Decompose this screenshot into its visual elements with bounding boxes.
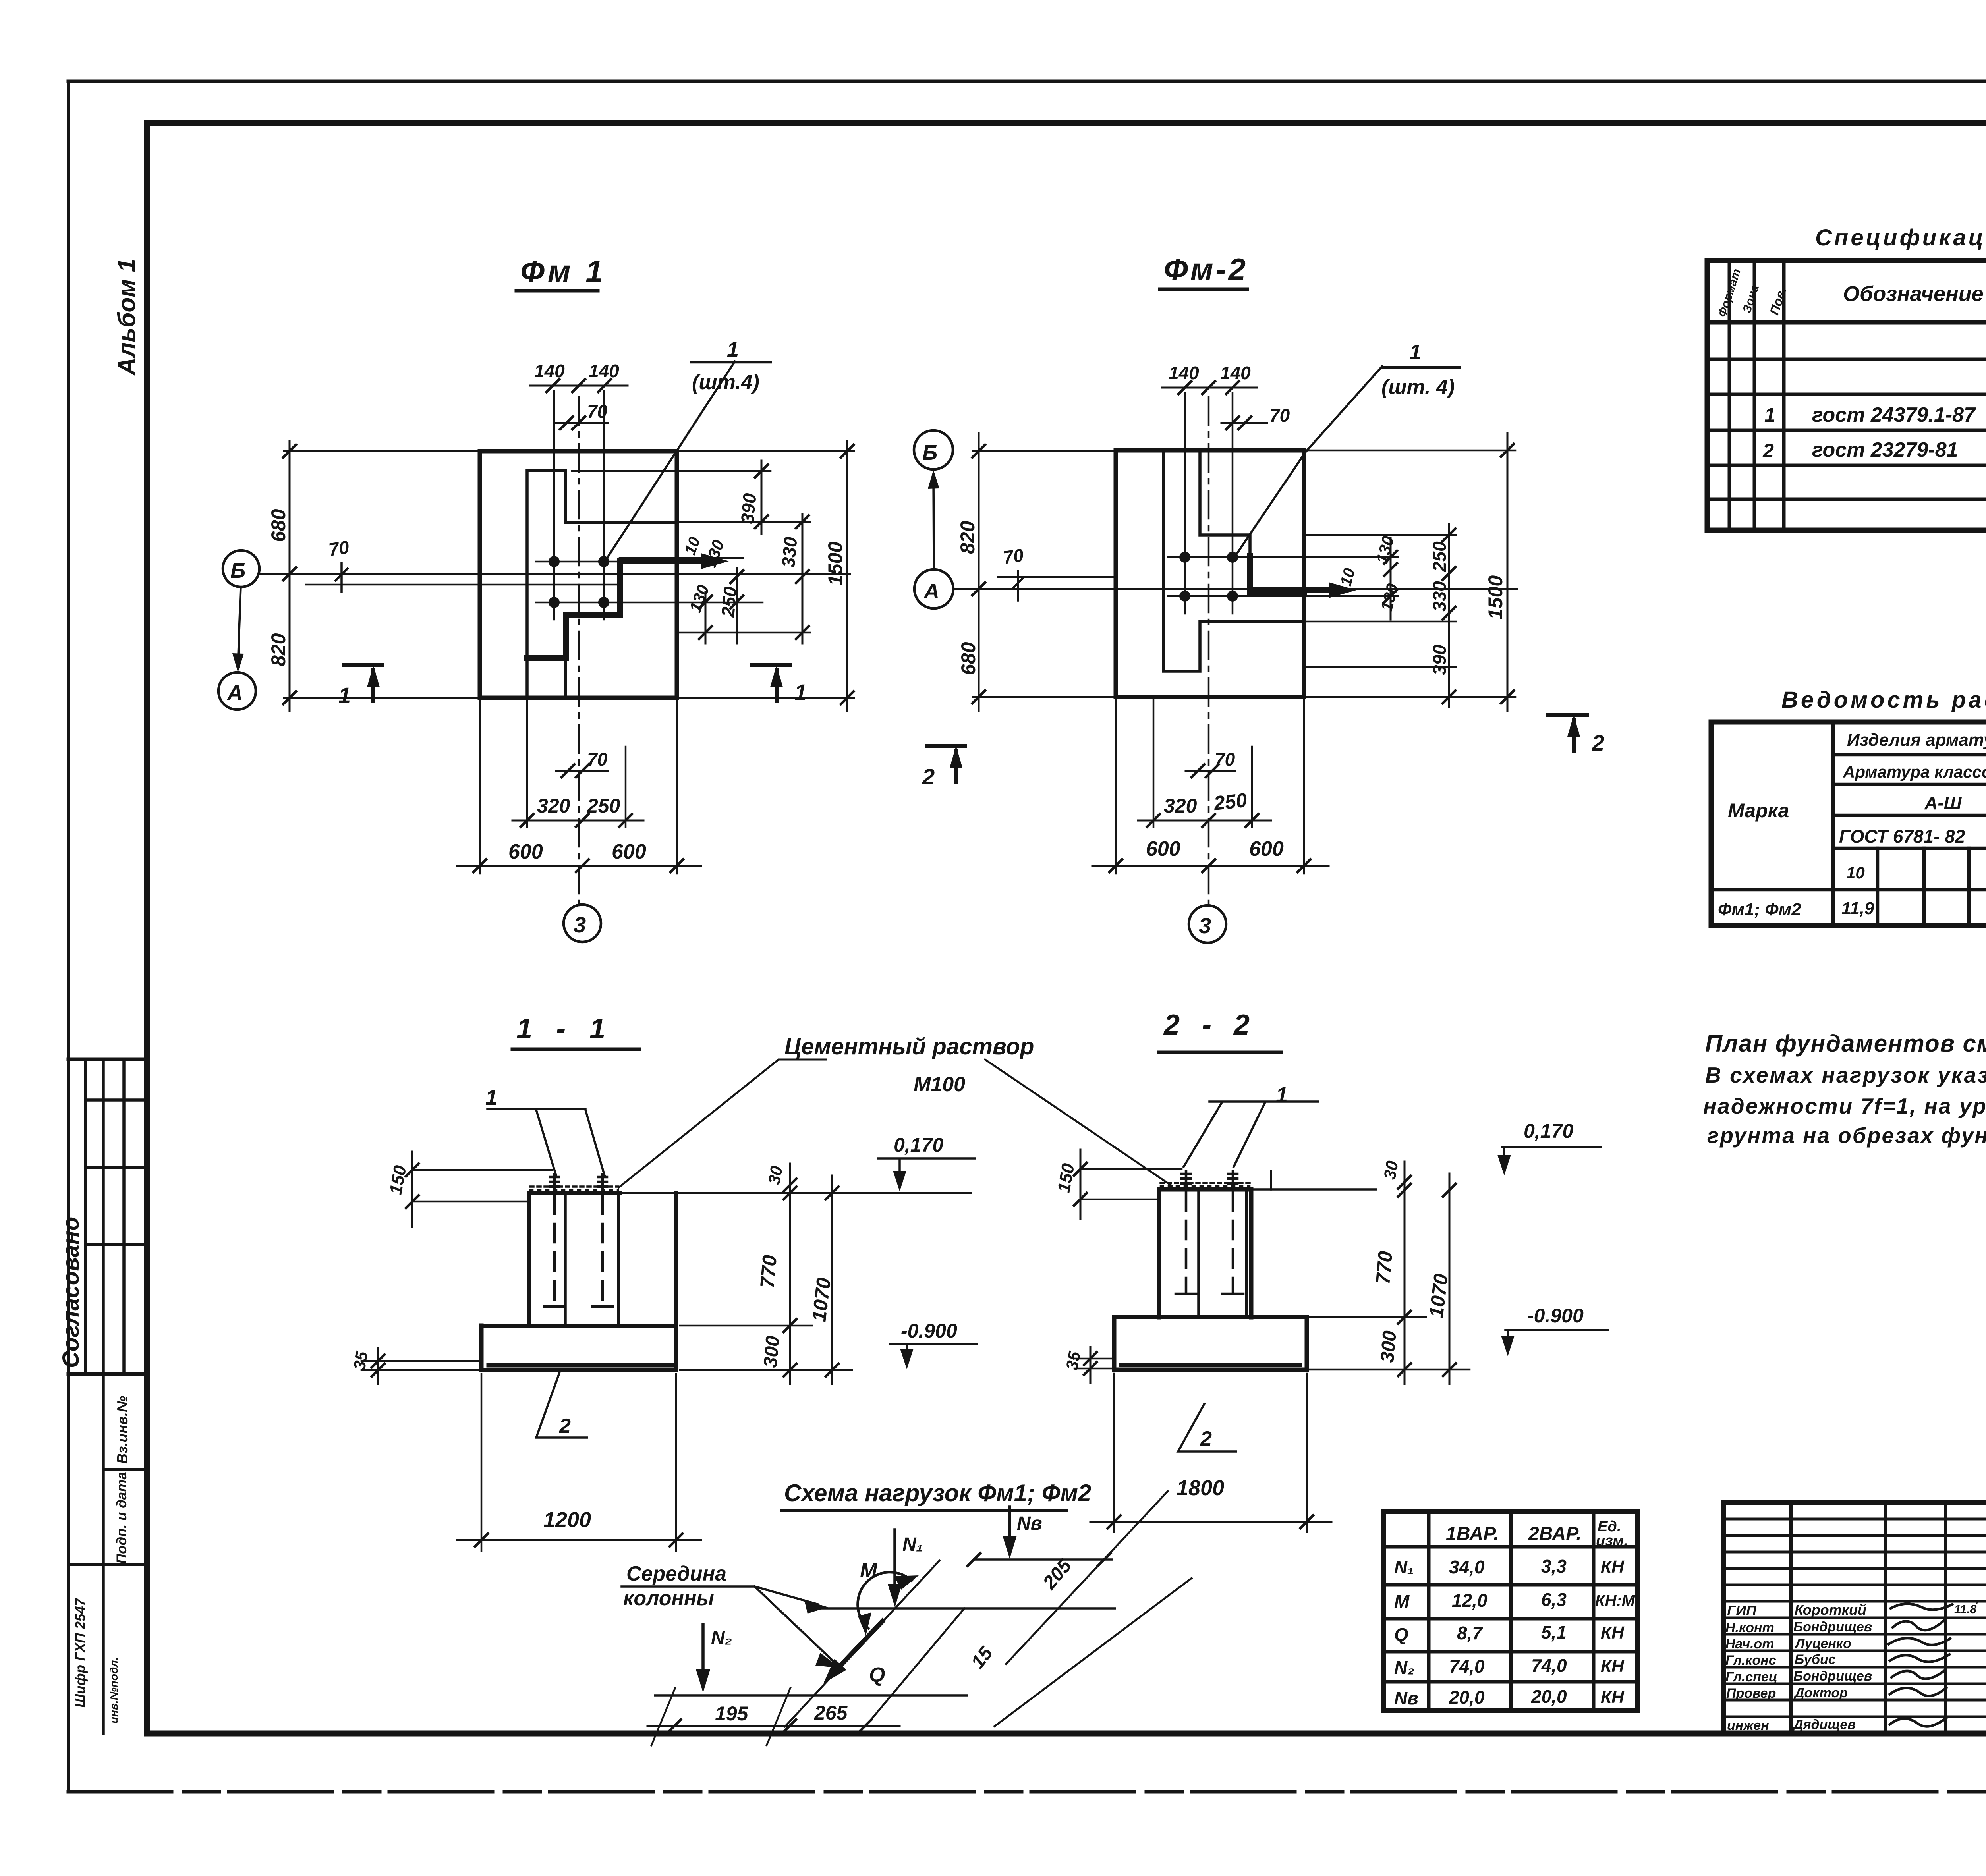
svg-text:Гл.конс: Гл.конс <box>1725 1653 1776 1668</box>
svg-text:1: 1 <box>794 679 807 704</box>
svg-text:11,9: 11,9 <box>1841 899 1874 918</box>
svg-text:1800: 1800 <box>1177 1476 1224 1500</box>
FM2 extension bottom to 1500 dim <box>1307 696 1515 698</box>
svg-text:250: 250 <box>587 795 620 817</box>
s22 mesh leader 2 <box>1178 1404 1236 1451</box>
svg-text:30: 30 <box>1380 1159 1402 1181</box>
svg-text:74,0: 74,0 <box>1449 1656 1485 1677</box>
svg-text:20,0: 20,0 <box>1449 1687 1485 1708</box>
load scheme title underline <box>782 1509 1066 1512</box>
svg-text:Короткий: Короткий <box>1795 1602 1866 1618</box>
section 2-2 title underline <box>1159 1051 1281 1054</box>
FM2 right inner dim ticks <box>1384 551 1397 602</box>
svg-text:Согласовано: Согласовано <box>58 1217 84 1368</box>
svg-text:Арматура классов: Арматура классов <box>1843 762 1986 781</box>
FM1 top dim 70 line <box>554 422 608 424</box>
s22 anchor bolt dashed left <box>1185 1192 1188 1292</box>
FM1 left dim line <box>289 441 291 711</box>
FM1 axis circle B <box>223 550 259 587</box>
svg-text:70: 70 <box>1215 749 1235 770</box>
scheme bottom dim line 195+265 <box>647 1725 900 1727</box>
specification table row lines <box>1707 320 1986 325</box>
FM1 bottom dim 70 <box>556 770 608 772</box>
sidebar approval grid columns <box>85 1059 124 1374</box>
FM1 left dim extension top <box>284 450 480 452</box>
s22 bottom dim 1800 line <box>1090 1521 1331 1523</box>
svg-text:1: 1 <box>338 683 351 708</box>
scheme diagonal right lower <box>865 1608 964 1727</box>
s22 slab left edge <box>1112 1317 1117 1370</box>
svg-text:Фм-2: Фм-2 <box>1164 252 1248 287</box>
section 1-1 title underline <box>512 1048 639 1051</box>
FM1 axis arrow B to A <box>238 587 241 667</box>
s11 left dim 35 <box>377 1348 379 1384</box>
svg-text:0,170: 0,170 <box>894 1134 943 1156</box>
inner frame rectangle <box>147 123 1986 1733</box>
svg-text:1500: 1500 <box>824 542 846 586</box>
svg-text:Nв: Nв <box>1394 1688 1418 1708</box>
title block left grid columns <box>1791 1503 1946 1733</box>
FM2 bottom dim 320+250 line <box>1138 820 1271 822</box>
FM2 bottom dim 600+600 line <box>1092 865 1329 867</box>
specification table column lines <box>1729 261 1986 530</box>
svg-text:Цементный раствор: Цементный раствор <box>784 1034 1034 1060</box>
s22 bolt thread left <box>1182 1172 1190 1189</box>
svg-text:Схема нагрузок Фм1; Фм2: Схема нагрузок Фм1; Фм2 <box>784 1480 1091 1506</box>
svg-text:Обозначение: Обозначение <box>1843 282 1984 306</box>
svg-text:КН: КН <box>1601 1656 1625 1676</box>
s11 mesh leader 2 <box>536 1373 587 1438</box>
scheme shear Q arrow <box>832 1621 883 1674</box>
svg-text:КН: КН <box>1601 1623 1625 1642</box>
scheme diagonal through N1 and Q <box>785 1561 939 1727</box>
svg-text:300: 300 <box>760 1335 784 1368</box>
FM2 grid axis circle 3 <box>1189 905 1226 943</box>
svg-text:Б: Б <box>230 559 245 583</box>
svg-text:Нач.от: Нач.от <box>1725 1637 1774 1652</box>
svg-text:А: А <box>923 579 939 603</box>
s11 pedestal top surface <box>529 1191 620 1195</box>
FM2 left dim ticks <box>972 445 985 703</box>
svg-text:КН:М: КН:М <box>1595 1592 1636 1610</box>
steel col Marka <box>1831 722 1835 925</box>
svg-text:1 - 1: 1 - 1 <box>516 1013 613 1045</box>
svg-text:Nв: Nв <box>1017 1513 1042 1534</box>
FM2 section marker 2 right <box>1548 715 1587 751</box>
svg-text:N₂: N₂ <box>711 1627 732 1648</box>
FM1 right outer dim ticks <box>841 445 854 704</box>
FM1 anchor bolt column centerlines <box>554 391 604 620</box>
svg-text:грунта на обрезах фундамента: грунта на обрезах фундамента и нагрузки … <box>1707 1123 1986 1148</box>
svg-text:Гл.спец: Гл.спец <box>1725 1669 1777 1685</box>
FM2 right dim extensions <box>1307 535 1456 667</box>
cement leader to section 2-2 <box>985 1060 1172 1186</box>
FM1 title underline <box>516 289 598 293</box>
specification table frame <box>1707 261 1986 530</box>
scheme middle beam line <box>808 1607 1115 1610</box>
sidebar cell line under Подп. и дата <box>68 1563 147 1566</box>
svg-text:320: 320 <box>537 795 570 817</box>
s22 pedestal right edge <box>1249 1189 1254 1317</box>
FM1 bottom dim 320+250 ticks <box>521 814 632 827</box>
s11 anchor bolt dashed left <box>553 1195 556 1305</box>
s11 cement layer dotted <box>530 1185 618 1188</box>
svg-text:N₁: N₁ <box>902 1534 923 1555</box>
FM1 bottom ext lines 600 <box>480 701 677 874</box>
svg-text:Фм 1: Фм 1 <box>520 254 606 289</box>
cement leader to section 1-1 <box>619 1060 826 1187</box>
FM1 inner step contour <box>527 471 677 698</box>
s22 ground line right <box>1251 1188 1376 1191</box>
s22 bottom dim 1800 extensions <box>1114 1374 1307 1532</box>
s22 bolt leader line <box>1184 1102 1318 1167</box>
svg-text:2ВАР.: 2ВАР. <box>1528 1523 1582 1544</box>
FM1 left dim extension bottom <box>284 697 480 699</box>
scheme bottom dim ticks <box>668 1720 871 1732</box>
s22 cement layer dotted <box>1161 1182 1250 1184</box>
svg-text:1: 1 <box>1764 404 1775 426</box>
s22 bolt thread right <box>1229 1172 1237 1189</box>
svg-text:Альбом 1: Альбом 1 <box>113 259 141 376</box>
sidebar approval grid top line <box>68 1058 147 1061</box>
svg-text:Б: Б <box>922 441 937 465</box>
FM2 foundation outline <box>1116 450 1304 697</box>
svg-text:680: 680 <box>267 509 290 542</box>
FM2 inner step contour <box>1163 450 1304 671</box>
svg-text:600: 600 <box>1146 838 1180 861</box>
load table column lines <box>1429 1512 1594 1711</box>
s11 anchor bolt dashed right <box>601 1195 604 1305</box>
FM1 right inner dim ticks <box>699 465 768 639</box>
s11 bolt thread left <box>550 1175 559 1193</box>
scheme force N1 arrow <box>893 1530 896 1597</box>
svg-text:Бондрищев: Бондрищев <box>1793 1619 1872 1635</box>
s11 right dim line 30/770/300 <box>789 1164 791 1384</box>
s22 left dim 35 <box>1090 1347 1092 1383</box>
FM2 top dim 70 ticks <box>1226 417 1251 429</box>
svg-text:В схемах нагрузок указаны ра: В схемах нагрузок указаны расчетные нагр… <box>1705 1063 1986 1087</box>
steel table frame <box>1711 722 1986 925</box>
svg-text:35: 35 <box>350 1350 372 1372</box>
svg-text:2: 2 <box>1592 730 1604 755</box>
FM2 left dim extension top <box>973 450 1116 452</box>
sidebar lower block divider <box>68 1372 147 1376</box>
svg-text:1: 1 <box>485 1086 497 1110</box>
svg-text:74,0: 74,0 <box>1531 1655 1567 1676</box>
svg-text:390: 390 <box>1429 645 1450 675</box>
s22 pedestal left edge <box>1157 1189 1161 1317</box>
svg-text:КН: КН <box>1601 1687 1625 1707</box>
svg-text:70: 70 <box>327 537 350 560</box>
outer sheet border bottom <box>68 1790 1986 1794</box>
svg-text:70: 70 <box>587 749 608 770</box>
svg-text:изм.: изм. <box>1596 1532 1628 1549</box>
svg-text:600: 600 <box>1249 838 1284 861</box>
FM1 grid axis circle 3 <box>564 905 601 942</box>
s11 left dim 150 <box>411 1152 413 1227</box>
FM1 right mid dim line <box>802 514 804 643</box>
svg-text:-0.900: -0.900 <box>1527 1305 1584 1327</box>
svg-text:140: 140 <box>1169 363 1199 383</box>
FM1 section marker 1 left <box>344 665 382 701</box>
svg-text:820: 820 <box>956 521 979 554</box>
svg-text:30: 30 <box>765 1164 786 1186</box>
FM2 bottom ext lines 600 <box>1116 699 1304 874</box>
s22 slab bottom <box>1114 1368 1307 1372</box>
svg-text:10: 10 <box>1846 863 1865 882</box>
FM2 bottom dim 70 <box>1186 770 1235 772</box>
FM1 leader 1 sht4 line <box>605 361 735 561</box>
FM2 top dim line 140+140 <box>1162 387 1257 389</box>
FM1 top dim ticks <box>547 379 611 392</box>
load values table frame <box>1384 1512 1638 1711</box>
svg-text:300: 300 <box>1377 1330 1401 1363</box>
FM1 bold section step trace with arrow <box>527 561 715 658</box>
s11 pedestal left edge <box>527 1193 531 1326</box>
s22 dim extensions right <box>1310 1317 1470 1370</box>
svg-text:-0.900: -0.900 <box>901 1320 957 1342</box>
outer sheet border left <box>67 81 70 1792</box>
svg-text:35: 35 <box>1063 1350 1084 1372</box>
s22 bottom mesh position 2 <box>1121 1363 1300 1367</box>
svg-text:250: 250 <box>1212 789 1248 815</box>
s22 slab top ledge <box>1114 1315 1307 1319</box>
svg-text:70: 70 <box>1002 544 1025 568</box>
sidebar lower block column <box>102 1374 105 1733</box>
FM1 right inner dim line <box>705 461 761 643</box>
svg-text:34,0: 34,0 <box>1449 1557 1485 1577</box>
FM2 leader 1 sht4 line <box>1235 366 1382 556</box>
s22 right dim line 30/770/300 <box>1404 1162 1406 1384</box>
svg-text:600: 600 <box>612 840 646 863</box>
FM2 right inner dim line <box>1390 538 1392 620</box>
svg-text:1ВАР.: 1ВАР. <box>1446 1523 1499 1544</box>
FM2 anchor bolts <box>1179 552 1190 563</box>
steel sub row line <box>1833 888 1986 892</box>
svg-text:(шт. 4): (шт. 4) <box>1381 376 1455 399</box>
FM1 bolt row lines <box>536 562 763 602</box>
FM1 bottom dim 600+600 line <box>457 865 701 867</box>
svg-text:70: 70 <box>587 401 608 422</box>
scheme top beam ticks <box>968 1553 1111 1566</box>
svg-text:А: А <box>226 681 243 705</box>
svg-text:Доктор: Доктор <box>1793 1685 1848 1700</box>
svg-text:инв.№подл.: инв.№подл. <box>108 1657 120 1724</box>
FM1 top dim line 140+140 <box>530 385 628 387</box>
FM1 column axis centerline <box>578 397 580 907</box>
svg-text:ГИП: ГИП <box>1727 1602 1757 1619</box>
svg-text:надежности 7f=1, на уровне вер: надежности 7f=1, на уровне верха фундаме… <box>1703 1094 1986 1118</box>
s11 slab bottom <box>481 1368 676 1372</box>
FM1 axis circle A <box>218 672 256 710</box>
s22 anchor bolt dashed right <box>1232 1192 1234 1292</box>
svg-text:Н.конт: Н.конт <box>1725 1620 1774 1635</box>
svg-text:(шт.4): (шт.4) <box>692 371 759 394</box>
svg-text:2: 2 <box>922 764 935 789</box>
FM1 dim 70 left tick <box>336 563 348 592</box>
svg-text:390: 390 <box>737 492 760 524</box>
FM2 bold section step trace with arrow <box>1250 556 1343 593</box>
svg-text:Марка: Марка <box>1728 799 1789 822</box>
sidebar cell line under Вз.инв.№ <box>103 1468 147 1471</box>
svg-text:770: 770 <box>756 1254 781 1289</box>
svg-text:Провер: Провер <box>1726 1686 1776 1701</box>
FM1 left dim ticks <box>283 445 296 704</box>
load table row lines <box>1384 1547 1638 1682</box>
svg-text:Середина: Середина <box>626 1562 726 1585</box>
FM2 left dim extension bottom <box>973 696 1116 698</box>
FM2 leader underline <box>1382 366 1460 369</box>
svg-text:3: 3 <box>1199 913 1211 938</box>
svg-text:Вз.инв.№: Вз.инв.№ <box>114 1396 130 1464</box>
outer sheet border top <box>68 80 1986 83</box>
FM1 bottom dim 320+250 line <box>512 820 643 822</box>
svg-text:70: 70 <box>1269 405 1290 426</box>
svg-text:2: 2 <box>1762 440 1774 462</box>
scheme force N2 arrow <box>701 1624 705 1683</box>
scheme bottom beam line <box>655 1694 967 1697</box>
svg-text:680: 680 <box>957 642 979 675</box>
s11 right dim line 1070 <box>831 1175 833 1384</box>
s11 slab left edge <box>479 1326 484 1370</box>
FM2 axis offset line 70 <box>998 576 1117 578</box>
scheme bottom diag tick extensions <box>651 1688 790 1745</box>
scheme force N3 arrow <box>1008 1507 1011 1549</box>
FM2 right outer dim line 1500 <box>1507 433 1509 711</box>
title block frame <box>1723 1503 1986 1733</box>
FM2 right mid dim line <box>1448 524 1450 707</box>
scheme moment M arc <box>858 1572 912 1628</box>
svg-text:Шифр ГХП 2547: Шифр ГХП 2547 <box>73 1598 88 1708</box>
s22 ground tick <box>1270 1171 1272 1189</box>
FM1 top dim 70 ticks <box>560 417 585 429</box>
steel sub cells armatura <box>1878 848 1986 925</box>
svg-text:инжен: инжен <box>1727 1718 1769 1733</box>
svg-text:5,1: 5,1 <box>1541 1622 1567 1642</box>
svg-text:Спецификация на элемент констр: Спецификация на элемент конструкции <box>1815 225 1986 251</box>
s22 stakan inner walls <box>1199 1191 1246 1316</box>
s11 slab top ledge <box>481 1324 676 1328</box>
svg-text:250: 250 <box>1429 541 1450 572</box>
FM2 right mid dim ticks <box>1443 529 1455 703</box>
FM2 axis arrow A to B <box>933 475 934 569</box>
FM2 axis A line <box>954 588 1517 590</box>
s11 ground line right <box>620 1192 971 1194</box>
s11 bolt thread right <box>598 1175 607 1193</box>
FM2 axis circle B <box>914 430 953 469</box>
s11 dim extensions right <box>680 1326 852 1370</box>
svg-text:330: 330 <box>778 536 801 568</box>
s22 pedestal top surface <box>1159 1187 1251 1192</box>
svg-text:N₂: N₂ <box>1394 1657 1414 1678</box>
title block left grid rows <box>1723 1519 1986 1717</box>
scheme diagonal far right <box>995 1578 1192 1726</box>
svg-text:1: 1 <box>1276 1083 1288 1107</box>
svg-text:М: М <box>860 1559 878 1582</box>
svg-text:Бондрищев: Бондрищев <box>1793 1669 1872 1684</box>
FM2 bottom dim 320+250 ticks <box>1147 814 1258 827</box>
FM1 axis offset line 70 <box>306 584 620 586</box>
svg-text:1500: 1500 <box>1484 575 1507 620</box>
svg-text:330: 330 <box>1429 581 1450 612</box>
FM2 right outer dim ticks <box>1501 444 1514 703</box>
svg-text:Луценко: Луценко <box>1794 1636 1851 1651</box>
s11 bottom dim 1200 line <box>457 1539 701 1541</box>
svg-text:1: 1 <box>1409 340 1421 364</box>
FM1 right mid dim ticks <box>796 515 809 639</box>
s22 slab right edge <box>1305 1317 1309 1370</box>
svg-text:820: 820 <box>267 633 290 666</box>
svg-text:2: 2 <box>1200 1427 1212 1450</box>
svg-text:План фундаментов см. лист2.: План фундаментов см. лист2. <box>1705 1030 1986 1057</box>
FM1 section marker 1 right <box>752 665 790 701</box>
svg-text:Q: Q <box>1394 1624 1408 1645</box>
FM2 bolt row lines <box>1168 557 1398 596</box>
svg-text:Дядищев: Дядищев <box>1792 1717 1856 1732</box>
FM1 right outer dim line 1500 <box>846 441 848 711</box>
s22 right dim line 1070 <box>1449 1173 1451 1384</box>
FM1 axis B line <box>260 573 850 575</box>
FM1 anchor bolts <box>549 556 560 567</box>
svg-text:6,3: 6,3 <box>1541 1589 1567 1610</box>
FM2 column axis centerline <box>1208 397 1210 907</box>
s11 bottom dim 1200 extensions <box>481 1374 676 1551</box>
FM2 bottom ext lines <box>1153 699 1252 827</box>
svg-text:А-Ш: А-Ш <box>1924 793 1962 813</box>
svg-text:Бубис: Бубис <box>1795 1652 1836 1667</box>
scheme oblique dim 205 <box>1006 1491 1168 1664</box>
FM2 axis circle A <box>914 569 953 608</box>
svg-text:3: 3 <box>574 912 586 937</box>
svg-text:8,7: 8,7 <box>1457 1623 1483 1643</box>
svg-text:195: 195 <box>715 1702 749 1725</box>
svg-text:ГОСТ 6781- 82: ГОСТ 6781- 82 <box>1839 826 1965 847</box>
sidebar approval grid rows <box>85 1100 147 1245</box>
svg-text:N₁: N₁ <box>1394 1557 1414 1577</box>
svg-text:гост 23279-81: гост 23279-81 <box>1812 438 1958 461</box>
svg-text:140: 140 <box>1220 363 1251 383</box>
svg-text:12,0: 12,0 <box>1452 1590 1488 1611</box>
svg-text:2: 2 <box>559 1415 571 1438</box>
svg-text:11.8́: 11.8́ <box>1954 1603 1978 1616</box>
FM1 leader underline <box>692 361 771 364</box>
s11 bolt leader line <box>487 1109 605 1175</box>
s11 stakan inner walls <box>565 1195 618 1324</box>
FM2 section marker 2 left <box>927 746 965 782</box>
svg-text:М: М <box>1394 1591 1410 1612</box>
FM1 bottom dim 600+600 ticks <box>473 859 683 872</box>
FM2 extension top to 1500 dim <box>1307 450 1515 452</box>
FM2 top dim ticks <box>1178 381 1239 394</box>
svg-text:20,0: 20,0 <box>1531 1686 1567 1707</box>
svg-text:0,170: 0,170 <box>1524 1120 1573 1142</box>
svg-text:Ведомость расхода стали на эле: Ведомость расхода стали на элемент, кг. <box>1781 687 1986 713</box>
FM2 dim 70 tick <box>1012 571 1024 600</box>
svg-text:колонны: колонны <box>623 1587 714 1610</box>
FM1 bottom ext lines <box>527 699 626 827</box>
svg-text:3,3: 3,3 <box>1541 1556 1567 1577</box>
FM2 left dim line <box>978 433 980 711</box>
svg-text:2 - 2: 2 - 2 <box>1163 1009 1257 1041</box>
svg-text:320: 320 <box>1164 795 1197 817</box>
svg-text:140: 140 <box>589 361 619 381</box>
svg-text:КН: КН <box>1601 1557 1625 1577</box>
svg-text:Фм1; Фм2: Фм1; Фм2 <box>1718 900 1801 919</box>
svg-text:гост 24379.1-87: гост 24379.1-87 <box>1812 403 1976 427</box>
svg-text:250: 250 <box>717 585 741 618</box>
svg-text:770: 770 <box>1372 1250 1397 1285</box>
scheme top beam line <box>974 1558 1112 1561</box>
